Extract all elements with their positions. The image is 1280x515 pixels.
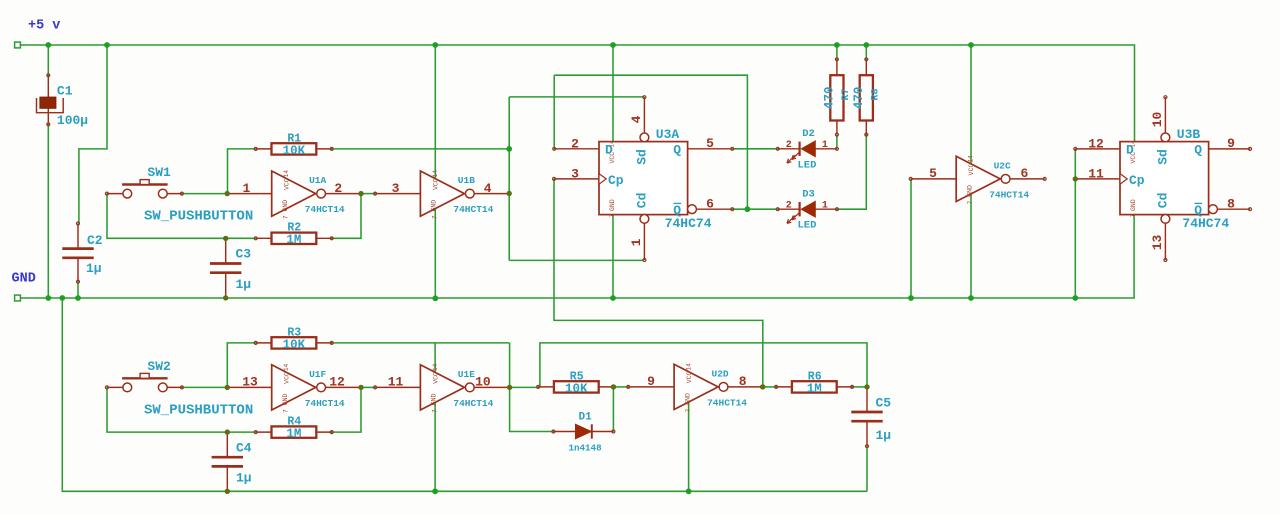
wire bottom rail [62,298,867,491]
junction GND / U3B pin12 column [1072,295,1078,301]
svg-text:10K: 10K [283,338,306,352]
capacitor C2 [62,222,103,283]
svg-text:1: 1 [822,140,828,151]
junction U1A output / R2 [358,191,363,196]
wire U1B input pin [375,193,420,195]
wire U3A pin6 Qbar [696,208,732,210]
svg-text:2: 2 [334,181,342,196]
junction node B2 / U1E output [507,385,512,390]
wire +5V to R7 [836,45,838,59]
svg-text:VCC: VCC [432,372,439,384]
svg-text:1: 1 [822,201,828,212]
svg-text:Cp: Cp [1129,173,1145,188]
junction U1F output / R4 [358,385,363,390]
wire U1A input pin [227,193,272,195]
svg-text:C5: C5 [876,395,892,410]
wire feedback down to pin 2 [553,75,555,149]
svg-text:7: 7 [283,409,290,413]
wire SW1 lower loop to R2 [107,194,256,239]
svg-text:100µ: 100µ [57,113,88,128]
junction U3B pin11 column [1073,176,1078,181]
junction +5V / U1B column [432,42,438,48]
svg-text:U2C: U2C [994,160,1011,171]
junction +5V / C1 [45,42,51,48]
wire U1A output pin [326,193,362,195]
svg-text:10K: 10K [565,382,588,396]
junction +5V / U2C column [968,42,974,48]
resistor R4 [254,416,333,442]
junction node A2 [225,385,230,390]
svg-text:2: 2 [571,136,579,151]
svg-text:VCC: VCC [686,371,693,383]
junction bottom rail / C4 [225,489,230,494]
wire U3A Qbar feedback to D [554,75,747,209]
wire D3 anode to R8 [837,135,866,210]
wire U1A out to U1B in [361,193,375,195]
wire node B2 down to D1 anode [510,343,554,432]
inverter U2C 74HCT14 [929,155,1029,205]
wire U2D GND pin down [688,401,690,491]
svg-text:1µ: 1µ [876,428,892,443]
svg-text:5: 5 [929,166,937,181]
svg-text:10: 10 [1150,112,1165,128]
junction GND / bottom rail [59,295,65,301]
wire +5V top rail [18,45,1135,142]
wire U2D input pin [628,386,674,388]
svg-text:470: 470 [823,87,837,110]
svg-text:VCC: VCC [284,372,291,384]
svg-text:GND: GND [282,393,289,405]
wire U3A Cp to U2D output [554,179,763,387]
svg-text:74HCT14: 74HCT14 [989,189,1029,200]
wire U2C input column [910,179,912,298]
wire node B2 to R5 [510,386,540,388]
LED D2 [776,128,838,171]
wire U2D out to R6 left [762,386,776,388]
svg-text:10K: 10K [283,144,306,158]
svg-text:74HCT14: 74HCT14 [305,204,345,215]
wire +5V to C1 [47,45,49,75]
svg-text:D2: D2 [802,128,815,140]
svg-text:1µ: 1µ [236,277,252,292]
wire U3B pin9 Q [1209,148,1250,150]
svg-text:R8: R8 [870,88,881,100]
svg-text:U2D: U2D [712,368,729,379]
inverter U1B 74HCT14 [392,170,494,220]
capacitor C4 [212,432,252,491]
svg-text:VCC: VCC [968,163,975,175]
svg-text:U1E: U1E [458,369,475,380]
svg-text:14: 14 [432,363,439,371]
svg-text:C1: C1 [57,83,73,98]
wire U1E input pin [375,386,420,388]
capacitor C5 [851,387,891,448]
svg-text:2: 2 [786,201,792,212]
svg-text:4: 4 [484,181,492,196]
svg-text:6: 6 [706,196,714,211]
svg-text:14: 14 [432,170,439,178]
svg-text:Q: Q [673,142,681,157]
svg-text:Sd: Sd [635,149,650,165]
wire node A2 up to R3 left [227,343,255,388]
svg-text:1n4148: 1n4148 [569,442,603,453]
svg-text:2: 2 [786,140,792,151]
svg-text:R7: R7 [841,88,852,100]
svg-text:LED: LED [798,159,817,171]
pin end U1B input [374,192,377,195]
junction GND / U2C input column [908,295,914,301]
junction bottom rail / U1E column [432,488,438,494]
pushbutton SW1 SW_PUSHBUTTON [105,165,253,225]
wire U3B Sd pin stem [1164,97,1166,133]
wire +5V vertical through U1B column [434,45,436,298]
inverter U1A 74HCT14 [242,170,344,220]
junction +5V / C2 branch [104,42,110,48]
resistor R3 [254,326,333,352]
svg-text:D3: D3 [802,189,815,201]
wire R4 right up to U1F output [331,387,361,432]
pin end U3A pin3 [553,177,556,180]
wire U1E output pin [474,386,509,388]
junction GND / U1B column [432,295,438,301]
svg-text:SW2: SW2 [147,359,171,374]
wire U3B Cd pin stem [1164,223,1166,260]
wire U3B pin11 Cp [1075,178,1120,180]
svg-text:GND: GND [684,393,691,405]
svg-text:7: 7 [1130,214,1137,218]
svg-text:LED: LED [798,220,817,232]
wire U3A Qbar to D3 [732,208,777,210]
wire C2 to GND [77,282,79,298]
wire U2D output pin [728,386,762,388]
resistor R8 [852,58,881,136]
junction Qbar feedback [745,206,751,212]
wire vertical through U2C column [970,45,972,298]
svg-text:7: 7 [685,408,692,412]
svg-text:1: 1 [242,181,250,196]
wire U2C input pin [911,178,957,180]
svg-text:74HCT14: 74HCT14 [453,204,493,215]
junction R5 right / D1 cathode [611,384,616,389]
junction U2D output / Cp feedback [760,384,765,389]
svg-text:74HCT14: 74HCT14 [305,398,345,409]
wire C5 bottom to bottom rail [866,446,868,491]
wire U1F output pin [326,386,362,388]
svg-text:VCC: VCC [284,178,291,190]
svg-text:9: 9 [1227,136,1235,151]
wire U3B pin8 Qbar [1217,208,1250,210]
pin end U3B pin8 [1249,208,1252,211]
svg-text:14: 14 [283,170,290,178]
wire R3 right feedback [331,342,510,344]
wire U3A pin2 D [554,148,599,150]
svg-text:U3A: U3A [656,127,680,142]
svg-text:GND: GND [12,272,36,287]
wire C1 to GND [47,124,49,298]
inverter U1F 74HCT14 [242,363,345,413]
LED D3 [776,189,838,232]
svg-text:GND: GND [967,185,974,197]
svg-text:1: 1 [629,238,644,246]
pin end U2C output [1043,177,1046,180]
svg-text:GND: GND [282,200,289,212]
resistor R2 [254,222,333,248]
capacitor C3 [210,238,251,298]
svg-text:12: 12 [329,375,345,390]
svg-text:Cp: Cp [608,173,624,188]
svg-text:GND: GND [1130,199,1137,211]
svg-text:12: 12 [1088,136,1104,151]
+5V rail left terminal square [15,42,21,48]
svg-text:SW1: SW1 [147,165,171,180]
wire U1F input pin [227,386,271,388]
svg-text:7: 7 [967,200,974,204]
wire node B to U3A Sd [509,96,644,98]
pin end U3B pin12 [1074,147,1077,150]
svg-text:D1: D1 [579,411,593,423]
wire U1F out to U1E in [361,386,375,388]
junction GND / C3 [223,295,228,300]
svg-text:U1B: U1B [458,175,475,186]
svg-text:C3: C3 [236,246,252,261]
resistor R5 [537,370,616,396]
svg-text:3: 3 [392,181,400,196]
svg-text:7: 7 [283,215,290,219]
junction node B / U1B output [507,191,512,196]
svg-text:4: 4 [629,115,644,123]
wire SW2 lower loop to R4 [107,387,256,432]
wire R5 left feedback to C5 top [540,343,867,388]
pin end U2D output [760,385,763,388]
junction C3 / SW1 loop [223,236,228,241]
junction GND / U2C column [968,295,974,301]
svg-text:9: 9 [647,374,655,389]
wire U3A Cd line [509,259,644,261]
junction +5V / U3A VCC [610,42,616,48]
svg-text:7: 7 [431,215,438,219]
flip-flop U3A 74HC74 [571,96,714,262]
svg-text:GND: GND [609,199,616,211]
svg-text:1µ: 1µ [236,471,252,486]
svg-text:5: 5 [706,136,714,151]
svg-text:7: 7 [431,409,438,413]
wire node A up to R1 left [228,149,256,194]
svg-text:6: 6 [1020,166,1028,181]
svg-text:8: 8 [739,374,747,389]
capacitor C1 (polarized electrolytic) [37,74,89,128]
svg-text:Cd: Cd [1156,193,1171,209]
svg-text:Cd: Cd [635,193,650,209]
svg-text:C4: C4 [236,440,252,455]
wire node B vertical [508,97,510,261]
svg-text:U1A: U1A [309,175,326,186]
wire +5V to U3A VCC [612,45,614,142]
junction +5V / R7 [834,42,840,48]
wire U3A Q to D2 [732,148,777,150]
svg-text:3: 3 [571,166,579,181]
svg-text:74HCT14: 74HCT14 [707,397,747,408]
svg-text:74HC74: 74HC74 [665,216,712,231]
svg-text:74HC74: 74HC74 [1182,216,1229,231]
svg-text:Sd: Sd [1156,149,1171,165]
svg-text:VCC: VCC [432,178,439,190]
wire SW2 to node A2 [182,386,227,388]
svg-text:14: 14 [968,155,975,163]
svg-text:+5 v: +5 v [28,19,60,34]
junction +5V / R8 [863,42,869,48]
wire R5 right to U2D input [613,386,629,388]
wire vertical through U1E column [434,343,436,491]
svg-text:74HCT14: 74HCT14 [453,398,493,409]
pin end U2D input [627,385,630,388]
pin end U3A pin6 [731,208,734,211]
wire R1 right to node B [331,148,510,150]
svg-text:470: 470 [852,87,866,110]
resistor R1 [254,132,333,158]
diode D1 1n4148 [552,411,615,453]
wire D2 anode to R7 [836,135,838,149]
pin end U3B pin9 [1249,147,1252,150]
wire U3A Cd pin stem [643,223,645,260]
junction C4 / SW2 loop [225,429,230,434]
junction bottom rail / U2D GND [686,488,692,494]
wire +5V to R8 [865,45,867,59]
inverter U1E 74HCT14 [388,363,494,413]
wire U3A Sd pin stem [643,97,645,133]
wire U3A GND pin down [612,215,614,298]
wire U2C output pin [1010,178,1045,180]
junction node A [225,191,230,196]
svg-text:10: 10 [475,375,491,390]
svg-text:1M: 1M [807,382,822,396]
svg-text:SW_PUSHBUTTON: SW_PUSHBUTTON [144,209,253,225]
junction GND / U3A GND [610,295,616,301]
svg-text:D: D [605,142,613,157]
resistor R7 [823,58,852,136]
svg-text:13: 13 [1150,235,1165,251]
junction GND / C1 [45,295,51,301]
GND rail left terminal square [15,295,21,301]
wire GND rail [18,215,1135,298]
svg-text:11: 11 [388,375,404,390]
wire +5V to C2 [79,45,107,224]
junction GND / C2 [75,295,81,301]
pin end U2C input [909,177,912,180]
svg-text:14: 14 [686,363,693,371]
svg-text:1M: 1M [286,233,301,247]
svg-text:Q: Q [1194,142,1202,157]
pin end U3A pin2 [553,147,556,150]
svg-text:11: 11 [1088,166,1104,181]
pushbutton SW2 SW_PUSHBUTTON [105,359,253,419]
wire pin9 node down to D1 cathode [612,387,614,432]
svg-text:GND: GND [431,200,438,212]
wire U3B pin12 column [1074,149,1076,298]
junction node B / R1 [506,146,512,152]
svg-text:8: 8 [1227,196,1235,211]
pin end U3A pin5 [731,147,734,150]
svg-text:D: D [1126,142,1134,157]
svg-text:U3B: U3B [1177,127,1201,142]
wire U3B pin12 D [1075,148,1120,150]
flip-flop U3B 74HC74 [1088,96,1235,262]
wire U1B output pin [474,193,509,195]
wire U3A pin3 Cp [554,178,599,180]
svg-text:7: 7 [609,214,616,218]
svg-text:GND: GND [431,393,438,405]
svg-text:U1F: U1F [309,369,326,380]
wire R2 right up to U1A output [331,194,361,239]
wire R6 right to C5 [851,386,867,388]
wire SW1 to node A [182,193,227,195]
inverter U2D 74HCT14 [647,363,747,413]
pin end U1E input [374,386,377,389]
junction R6 / C5 / feedback [864,384,869,389]
svg-text:1M: 1M [286,427,301,441]
svg-text:13: 13 [242,375,258,390]
svg-text:14: 14 [283,363,290,371]
wire U3A pin5 Q [688,148,733,150]
svg-text:1µ: 1µ [86,261,102,276]
resistor R6 [775,370,854,396]
svg-text:C2: C2 [87,233,103,248]
svg-text:SW_PUSHBUTTON: SW_PUSHBUTTON [144,402,253,418]
